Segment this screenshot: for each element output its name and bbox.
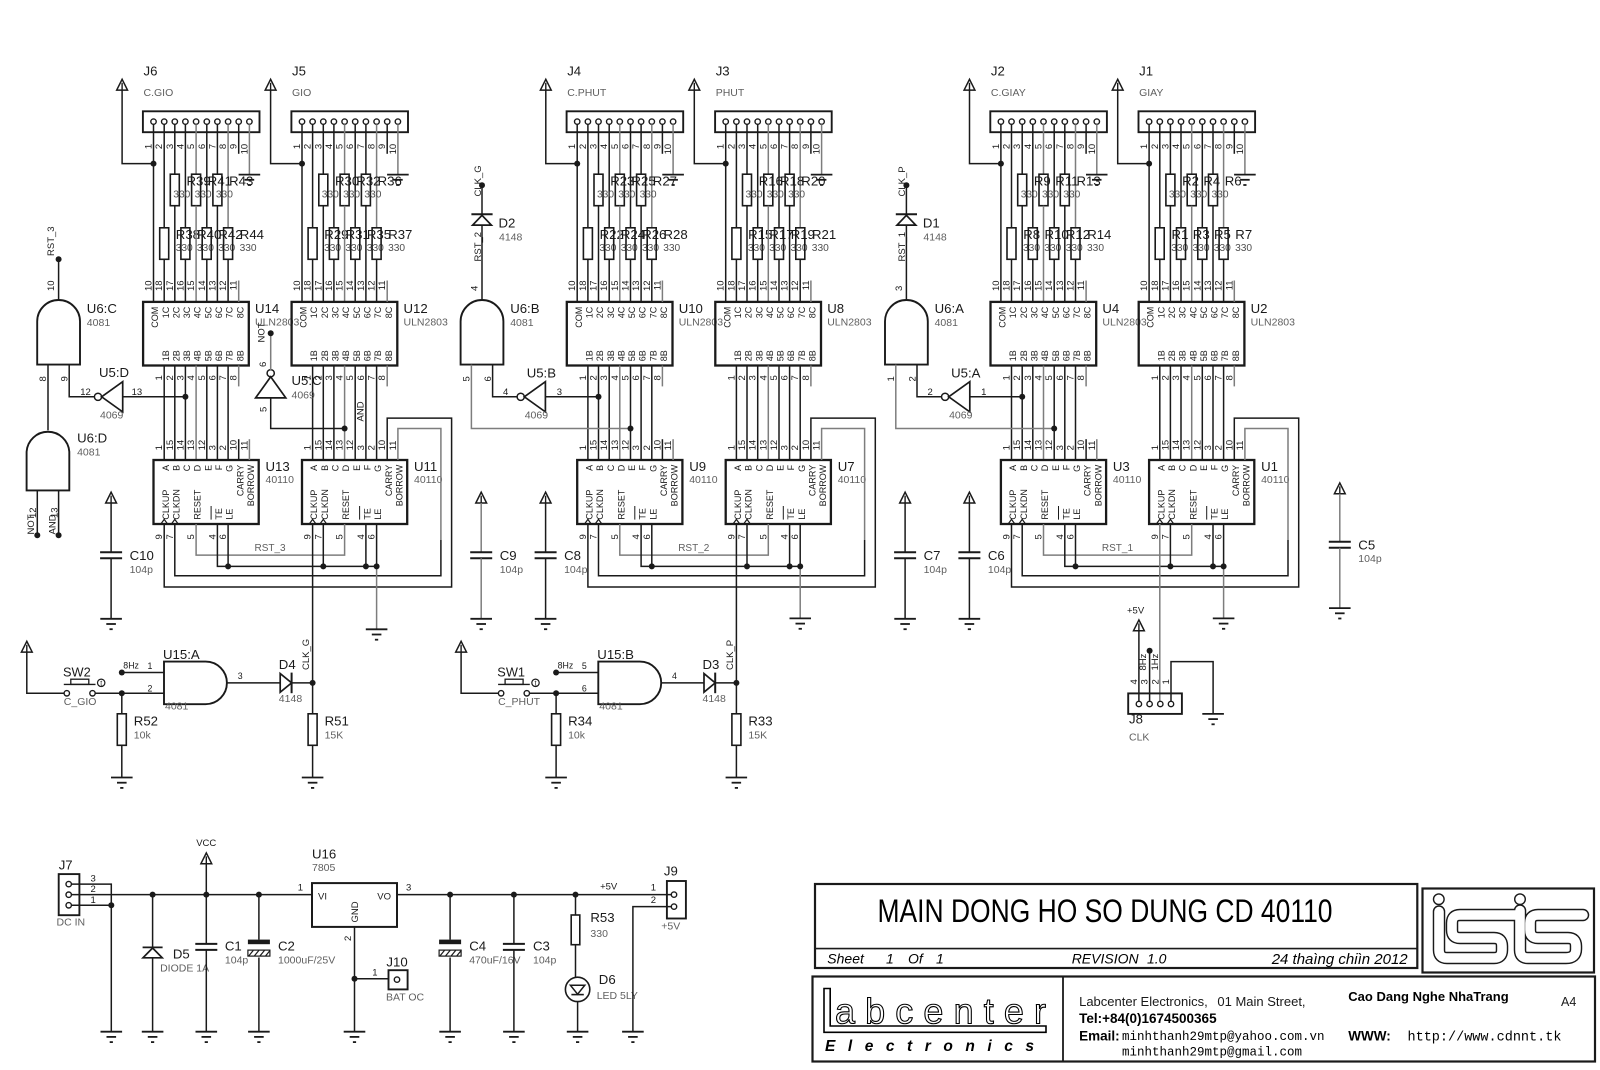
svg-text:1: 1 xyxy=(148,661,153,671)
svg-text:U15:B: U15:B xyxy=(597,647,634,662)
svg-text:LE: LE xyxy=(797,509,807,520)
svg-text:12: 12 xyxy=(197,440,208,451)
svg-text:14: 14 xyxy=(1023,440,1034,451)
wire J3 pin9 stub xyxy=(810,124,812,154)
resistor R34 10k xyxy=(552,693,593,777)
svg-text:7C: 7C xyxy=(1072,306,1082,318)
svg-text:RST_2: RST_2 xyxy=(678,543,710,554)
svg-text:F: F xyxy=(214,464,224,470)
svg-text:7C: 7C xyxy=(797,306,807,318)
counter U9 40110 top pin numbers xyxy=(578,440,674,451)
svg-text:10: 10 xyxy=(567,280,578,291)
wires U8 outputs to counter xyxy=(736,366,800,461)
svg-text:14: 14 xyxy=(621,280,632,291)
resistor R9 330 xyxy=(1018,173,1051,205)
U10 bottom pin numbers xyxy=(578,375,664,380)
svg-text:14: 14 xyxy=(1192,280,1203,291)
svg-text:10: 10 xyxy=(1139,280,1150,291)
svg-text:13: 13 xyxy=(1182,440,1193,451)
svg-text:16: 16 xyxy=(748,280,759,291)
net label CLK_P vertical xyxy=(725,640,736,670)
svg-text:COM: COM xyxy=(998,307,1008,328)
svg-text:16: 16 xyxy=(324,280,335,291)
wires U10 outputs to counter xyxy=(588,366,652,461)
svg-text:8Hz: 8Hz xyxy=(558,661,574,671)
resistor R27 330 xyxy=(637,173,677,205)
svg-text:CLKUP: CLKUP xyxy=(733,490,743,520)
svg-text:7805: 7805 xyxy=(312,862,336,874)
svg-text:330: 330 xyxy=(1190,190,1207,201)
svg-text:R13: R13 xyxy=(1077,173,1101,188)
svg-text:J8: J8 xyxy=(1129,712,1143,727)
wire U6:B output to diode D2 xyxy=(481,225,483,300)
svg-text:RESET: RESET xyxy=(1188,489,1198,520)
svg-text:14: 14 xyxy=(175,440,186,451)
svg-text:15: 15 xyxy=(758,280,769,291)
ground at J4 pin10 xyxy=(662,175,684,185)
junctions on TE/LE net (RST_2 pair) xyxy=(649,563,803,569)
svg-text:ULN2803: ULN2803 xyxy=(827,317,872,329)
svg-text:A: A xyxy=(585,465,595,471)
svg-text:104p: 104p xyxy=(988,564,1012,576)
svg-text:15: 15 xyxy=(186,280,197,291)
svg-text:U4: U4 xyxy=(1102,301,1119,316)
U7 bottom pin numbers xyxy=(726,534,801,539)
svg-text:1.0: 1.0 xyxy=(1147,951,1167,967)
IC U2 ULN2803 xyxy=(1139,301,1295,365)
wire U6:A input to U5:A output xyxy=(917,365,942,397)
svg-text:14: 14 xyxy=(1044,280,1055,291)
connector J10 BAT OC xyxy=(372,955,424,1004)
wire 8Hz to U15:A xyxy=(122,672,164,674)
svg-text:8C: 8C xyxy=(384,306,394,318)
svg-text:CLKUP: CLKUP xyxy=(309,490,319,520)
svg-text:U5:B: U5:B xyxy=(527,366,557,381)
svg-text:16: 16 xyxy=(1023,280,1034,291)
svg-text:13: 13 xyxy=(207,280,218,291)
svg-text:U10: U10 xyxy=(679,301,703,316)
wire J5 pin9 stub xyxy=(386,124,388,154)
svg-text:330: 330 xyxy=(1212,190,1229,201)
wire U5:A input to segment wire xyxy=(970,396,1022,398)
wire U5:C input to segment D wire xyxy=(271,398,345,429)
power arrow above C6 xyxy=(964,492,975,503)
IC U10 ULN2803 xyxy=(567,301,723,365)
labcenter logo xyxy=(824,989,1046,1056)
svg-text:AND: AND xyxy=(47,514,58,534)
svg-text:15K: 15K xyxy=(748,730,767,742)
resistor R36 330 xyxy=(361,173,401,205)
svg-text:1C: 1C xyxy=(585,306,595,318)
wire J5 pin10 to ground xyxy=(397,124,399,174)
svg-text:C: C xyxy=(606,464,616,471)
svg-text:5B: 5B xyxy=(627,350,637,361)
svg-text:C1: C1 xyxy=(225,939,242,954)
svg-text:330: 330 xyxy=(1063,190,1080,201)
svg-text:6: 6 xyxy=(258,362,269,367)
svg-text:330: 330 xyxy=(812,243,829,254)
wires resistors to ULN inputs xyxy=(736,206,800,302)
svg-text:8C: 8C xyxy=(659,306,669,318)
svg-text:8B: 8B xyxy=(659,350,669,361)
svg-text:RESET: RESET xyxy=(1040,489,1050,520)
power arrow above C10 xyxy=(106,492,117,503)
svg-text:TE: TE xyxy=(363,508,373,520)
svg-text:+5V: +5V xyxy=(1127,606,1145,617)
wire J2 pin10 to ground xyxy=(1096,124,1098,174)
wire J5 power to pin 1 xyxy=(271,90,302,164)
svg-text:U14: U14 xyxy=(255,301,279,316)
svg-text:C5: C5 xyxy=(1358,538,1375,553)
svg-text:J9: J9 xyxy=(664,864,678,879)
resistor R51 15K xyxy=(308,683,349,778)
svg-text:330: 330 xyxy=(1021,190,1038,201)
AND gate U15:B 4081 xyxy=(582,647,677,713)
svg-text:10: 10 xyxy=(144,280,155,291)
svg-text:CARRY: CARRY xyxy=(1083,465,1093,496)
ground below R33 xyxy=(726,778,748,788)
svg-text:CLKDN: CLKDN xyxy=(744,489,754,520)
svg-text:4081: 4081 xyxy=(165,701,189,713)
svg-text:LED 5LY: LED 5LY xyxy=(597,990,638,1002)
U10 8C stub xyxy=(661,281,663,302)
svg-text:3: 3 xyxy=(1055,445,1066,450)
svg-text:U2: U2 xyxy=(1251,301,1268,316)
svg-text:2C: 2C xyxy=(595,306,605,318)
svg-text:C4: C4 xyxy=(469,939,486,954)
wire U6:B input to U5:B output xyxy=(493,365,518,397)
svg-text:LE: LE xyxy=(373,509,383,520)
svg-text:2C: 2C xyxy=(1167,306,1177,318)
svg-text:104p: 104p xyxy=(564,564,588,576)
svg-text:14: 14 xyxy=(197,280,208,291)
svg-text:AND: AND xyxy=(356,401,367,421)
svg-text:VI: VI xyxy=(318,891,327,902)
capacitor C8 104p xyxy=(535,503,588,619)
svg-text:CLKDN: CLKDN xyxy=(171,489,181,520)
wire SW1 to U15:B input xyxy=(530,692,599,694)
svg-text:D5: D5 xyxy=(173,947,190,962)
svg-text:5C: 5C xyxy=(352,306,362,318)
svg-text:12: 12 xyxy=(1044,440,1055,451)
junctions on TE/LE net (RST_1 pair) xyxy=(1073,563,1227,569)
svg-text:15: 15 xyxy=(165,440,176,451)
svg-text:330: 330 xyxy=(240,243,257,254)
svg-text:14: 14 xyxy=(345,280,356,291)
svg-text:2: 2 xyxy=(343,936,354,941)
J6 pin numbers 1-10 xyxy=(144,144,251,155)
wire J2 pin9 stub xyxy=(1085,124,1087,154)
svg-text:4B: 4B xyxy=(341,350,351,361)
resistor R28 330 xyxy=(647,227,688,259)
wire J1 pin10 to ground xyxy=(1244,124,1246,174)
svg-text:RESET: RESET xyxy=(616,489,626,520)
ground TE/LE (RST_2 pair) xyxy=(790,618,812,628)
svg-text:G: G xyxy=(1220,465,1230,472)
net terminal NOT at U6:D xyxy=(26,514,40,538)
svg-text:RST_3: RST_3 xyxy=(255,543,287,554)
svg-text:6C: 6C xyxy=(363,306,373,318)
svg-text:U6:C: U6:C xyxy=(87,301,118,316)
svg-text:3: 3 xyxy=(406,883,411,894)
svg-text:330: 330 xyxy=(173,190,190,201)
svg-text:TE: TE xyxy=(638,508,648,520)
U11 bottom pin numbers xyxy=(303,534,378,539)
svg-text:C: C xyxy=(754,464,764,471)
svg-text:NOT: NOT xyxy=(257,322,268,342)
svg-text:4148: 4148 xyxy=(279,693,303,705)
resistor R12 330 xyxy=(1050,227,1090,259)
svg-text:A: A xyxy=(1156,465,1166,471)
wire TE/LE ground net (RST_2 pair) xyxy=(641,524,800,618)
power arrow at J6 xyxy=(117,79,128,90)
svg-text:B: B xyxy=(320,465,330,471)
svg-text:3: 3 xyxy=(238,671,243,681)
wire input rail J7 to U16 VI xyxy=(71,894,312,896)
svg-text:C.GIAY: C.GIAY xyxy=(991,87,1026,99)
svg-text:5C: 5C xyxy=(627,306,637,318)
svg-text:8B: 8B xyxy=(1083,350,1093,361)
U14 8C stub xyxy=(238,281,240,302)
svg-text:2: 2 xyxy=(218,445,229,450)
svg-text:1: 1 xyxy=(726,445,737,450)
svg-text:D3: D3 xyxy=(703,657,720,672)
svg-text:J5: J5 xyxy=(292,64,306,79)
svg-text:C: C xyxy=(1029,464,1039,471)
svg-text:2C: 2C xyxy=(1019,306,1029,318)
svg-text:D: D xyxy=(1188,464,1198,471)
IC U9 40110 xyxy=(577,459,718,524)
svg-text:F: F xyxy=(638,464,648,470)
junction CLK_G xyxy=(310,680,316,686)
svg-text:J10: J10 xyxy=(386,955,407,970)
svg-text:U1: U1 xyxy=(1261,459,1278,474)
junction J7 pin1 xyxy=(108,902,114,908)
svg-text:BORROW: BORROW xyxy=(246,464,256,506)
svg-text:13: 13 xyxy=(1055,280,1066,291)
svg-text:3: 3 xyxy=(894,286,905,291)
svg-text:C_GIO: C_GIO xyxy=(64,696,97,708)
AND gate U15:A 4081 xyxy=(148,647,243,713)
svg-text:C.PHUT: C.PHUT xyxy=(567,87,607,99)
svg-text:D4: D4 xyxy=(279,657,296,672)
svg-text:RST_2: RST_2 xyxy=(473,232,484,262)
net terminal 8Hz at U15:B xyxy=(553,661,573,676)
svg-text:U6:D: U6:D xyxy=(77,431,107,446)
U12 8C stub xyxy=(386,281,388,302)
wires J5 pins 2-8 to resistors xyxy=(313,124,377,228)
J2 pin numbers 1-10 xyxy=(991,144,1098,155)
svg-text:12: 12 xyxy=(218,280,229,291)
wire D4 to CLK_G junction xyxy=(292,682,313,684)
svg-text:2: 2 xyxy=(1066,445,1077,450)
svg-text:RST_1: RST_1 xyxy=(1102,543,1134,554)
svg-text:1: 1 xyxy=(303,445,314,450)
wires resistors to ULN inputs xyxy=(313,206,377,302)
svg-text:abcenter: abcenter xyxy=(835,991,1046,1032)
switch SW1 xyxy=(497,665,540,709)
svg-text:330: 330 xyxy=(1169,190,1186,201)
connector J1 header xyxy=(1139,64,1256,133)
wire U5:D input to segment C wire xyxy=(123,396,186,398)
diode D5 DIODE 1A xyxy=(143,895,210,1032)
svg-text:10k: 10k xyxy=(134,730,152,742)
junction J5 pin1 xyxy=(299,161,305,167)
resistor R6 330 xyxy=(1209,173,1242,205)
junction U5:A input xyxy=(1019,394,1025,400)
svg-text:NOT: NOT xyxy=(26,514,37,534)
svg-text:12: 12 xyxy=(642,280,653,291)
svg-text:3C: 3C xyxy=(754,306,764,318)
svg-text:5C: 5C xyxy=(1199,306,1209,318)
wire U6:C output to RST_3 terminal xyxy=(58,259,60,300)
svg-text:R51: R51 xyxy=(325,714,349,729)
connector J8 CLK xyxy=(1128,693,1182,743)
svg-text:1: 1 xyxy=(578,445,589,450)
svg-text:13: 13 xyxy=(186,440,197,451)
svg-text:D6: D6 xyxy=(599,972,616,987)
svg-text:15: 15 xyxy=(737,440,748,451)
svg-text:R21: R21 xyxy=(812,227,836,242)
wire net RST_1 reset line xyxy=(1044,524,1192,555)
svg-text:MAIN DONG HO SO DUNG CD 40110: MAIN DONG HO SO DUNG CD 40110 xyxy=(878,893,1333,929)
wire U15:A output to D4 xyxy=(227,682,280,684)
power arrow +5V at J8 xyxy=(1127,606,1145,631)
resistor R24 330 xyxy=(605,227,645,259)
svg-text:RST_1: RST_1 xyxy=(897,232,908,262)
power arrow at SW2 xyxy=(21,641,32,652)
resistor R16 330 xyxy=(743,173,783,205)
U2 8B stub xyxy=(1233,366,1235,387)
svg-text:ULN2803: ULN2803 xyxy=(404,317,449,329)
connector J2 header xyxy=(990,64,1107,133)
svg-text:18: 18 xyxy=(1002,280,1013,291)
svg-text:4: 4 xyxy=(470,286,481,291)
svg-text:4148: 4148 xyxy=(703,693,727,705)
svg-text:8B: 8B xyxy=(235,350,245,361)
svg-text:D: D xyxy=(193,464,203,471)
wire J3 pin1 to U8 COM xyxy=(725,124,727,302)
isis logo box xyxy=(1423,889,1595,973)
svg-text:GIO: GIO xyxy=(292,87,311,99)
svg-text:7C: 7C xyxy=(1220,306,1230,318)
svg-text:CARRY: CARRY xyxy=(808,465,818,496)
wire J2 pin1 to U4 COM xyxy=(1000,124,1002,302)
svg-text:4B: 4B xyxy=(616,350,626,361)
svg-text:6C: 6C xyxy=(214,306,224,318)
svg-text:17: 17 xyxy=(1160,280,1171,291)
IC U7 40110 xyxy=(726,459,867,524)
svg-text:7C: 7C xyxy=(225,306,235,318)
resistor R37 330 xyxy=(372,227,412,259)
wire U16 GND to ground xyxy=(355,927,389,1032)
svg-text:1: 1 xyxy=(936,951,944,967)
svg-text:17: 17 xyxy=(165,280,176,291)
svg-text:C10: C10 xyxy=(130,548,154,563)
svg-text:BAT OC: BAT OC xyxy=(386,992,425,1004)
svg-text:minhthanh29mtp@yahoo.com.vn: minhthanh29mtp@yahoo.com.vn xyxy=(1122,1030,1325,1044)
svg-text:D: D xyxy=(616,464,626,471)
diode D1 4148 xyxy=(896,214,947,243)
capacitor C1 104p xyxy=(195,895,248,1032)
U3 bottom pin numbers xyxy=(1002,534,1077,539)
svg-text:R33: R33 xyxy=(748,714,772,729)
connector J6 header xyxy=(143,64,260,133)
svg-text:SW1: SW1 xyxy=(497,665,525,680)
svg-text:3B: 3B xyxy=(1029,350,1039,361)
svg-text:R14: R14 xyxy=(1087,227,1111,242)
inverter U5:A 4069 xyxy=(927,366,986,422)
net label RST_1 vertical xyxy=(897,232,908,262)
svg-text:330: 330 xyxy=(1235,243,1252,254)
svg-text:+5V: +5V xyxy=(661,921,680,933)
svg-text:8B: 8B xyxy=(808,350,818,361)
resistor R31 330 xyxy=(329,227,369,259)
svg-text:40110: 40110 xyxy=(1261,474,1290,486)
svg-text:LE: LE xyxy=(225,509,235,520)
svg-text:Cao Dang Nghe NhaTrang: Cao Dang Nghe NhaTrang xyxy=(1348,989,1508,1004)
svg-text:10: 10 xyxy=(292,280,303,291)
wires J4 pins 2-8 to resistors xyxy=(588,124,652,228)
junction rail at C2 xyxy=(256,892,262,898)
U9 BORROW stub xyxy=(672,439,674,460)
svg-text:1B: 1B xyxy=(161,350,171,361)
svg-text:4C: 4C xyxy=(193,306,203,318)
wire U6:D input AND xyxy=(58,490,60,535)
svg-text:E: E xyxy=(1051,465,1061,471)
svg-text:1: 1 xyxy=(91,895,96,906)
wire J6 power to pin 1 xyxy=(122,90,153,164)
svg-text:A: A xyxy=(309,465,319,471)
wire J6 pin1 to U14 COM xyxy=(153,124,155,302)
counter U11 40110 top pin numbers xyxy=(303,440,399,451)
svg-text:C3: C3 xyxy=(533,939,550,954)
capacitor C5 104p xyxy=(1329,494,1382,608)
IC U14 ULN2803 xyxy=(143,301,299,365)
svg-text:CLK_G: CLK_G xyxy=(301,639,312,670)
U10 top pin numbers xyxy=(567,280,663,291)
svg-text:6B: 6B xyxy=(1061,350,1071,361)
svg-text:3: 3 xyxy=(1203,445,1214,450)
svg-text:1: 1 xyxy=(372,968,377,979)
U3 BORROW stub xyxy=(1096,439,1098,460)
svg-text:4081: 4081 xyxy=(510,317,534,329)
wire J5 pin1 to U12 COM xyxy=(301,124,303,302)
svg-text:24 thaìng chiìn 2012: 24 thaìng chiìn 2012 xyxy=(1271,951,1409,968)
net label CLK_G vertical xyxy=(301,639,312,670)
svg-text:Labcenter Electronics,: Labcenter Electronics, xyxy=(1079,994,1208,1009)
svg-text:13: 13 xyxy=(780,280,791,291)
svg-text:7C: 7C xyxy=(648,306,658,318)
svg-text:Of: Of xyxy=(908,951,925,967)
svg-text:D: D xyxy=(341,464,351,471)
svg-text:18: 18 xyxy=(578,280,589,291)
svg-text:U9: U9 xyxy=(689,459,706,474)
svg-text:2B: 2B xyxy=(595,350,605,361)
svg-text:14: 14 xyxy=(769,280,780,291)
wires U2 outputs to counter xyxy=(1160,366,1224,461)
power arrow at SW1 xyxy=(456,641,467,652)
svg-text:C7: C7 xyxy=(924,548,941,563)
svg-text:1: 1 xyxy=(1002,445,1013,450)
svg-text:R28: R28 xyxy=(664,227,688,242)
ground below C9 xyxy=(470,619,492,629)
svg-text:3C: 3C xyxy=(1178,306,1188,318)
svg-text:10: 10 xyxy=(46,280,57,291)
svg-text:B: B xyxy=(744,465,754,471)
IC U3 40110 xyxy=(1001,459,1142,524)
svg-text:12: 12 xyxy=(1192,440,1203,451)
